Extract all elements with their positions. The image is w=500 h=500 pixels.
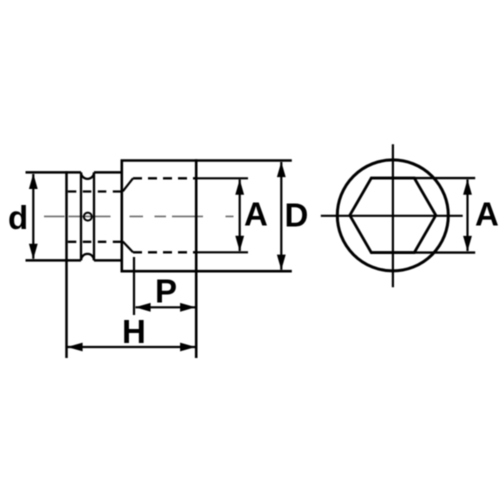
svg-text:A: A <box>475 196 499 233</box>
svg-text:P: P <box>155 273 177 310</box>
svg-text:A: A <box>244 196 268 233</box>
svg-text:H: H <box>122 313 146 350</box>
svg-text:D: D <box>285 197 309 234</box>
svg-text:d: d <box>8 199 28 236</box>
